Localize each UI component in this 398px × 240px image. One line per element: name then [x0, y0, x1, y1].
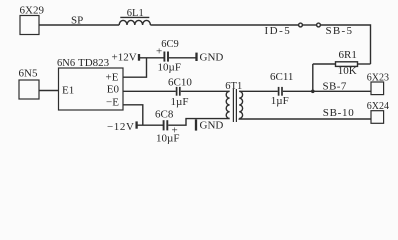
wire: pin +E to +12V rail	[123, 58, 147, 77]
wire SB-7: 6C11 to 6X23	[283, 90, 371, 92]
svg-text:6C8: 6C8	[155, 108, 174, 120]
connector 6X24	[367, 101, 389, 123]
svg-text:10µF: 10µF	[156, 132, 179, 144]
capacitor C 6C8 10uF	[155, 108, 179, 144]
wire: 6C8 up-step to 6T1 primary bottom	[168, 119, 229, 126]
op-amp U1 6N6 TD823	[57, 57, 123, 110]
inductor 6L1	[119, 8, 150, 25]
svg-text:+12V: +12V	[112, 51, 137, 63]
svg-text:1µF: 1µF	[271, 95, 289, 107]
svg-text:SB-10: SB-10	[323, 107, 355, 119]
svg-text:−12V: −12V	[107, 121, 135, 133]
wire: +12V rail to 6C9	[139, 57, 164, 59]
svg-text:6R1: 6R1	[339, 49, 357, 61]
svg-text:GND: GND	[200, 51, 224, 63]
svg-text:SB-7: SB-7	[323, 80, 347, 92]
svg-text:GND: GND	[200, 120, 224, 132]
wire: 6N5 to pin E1	[39, 90, 59, 92]
svg-text:6X23: 6X23	[367, 73, 389, 84]
svg-text:1µF: 1µF	[171, 96, 189, 108]
transformer 6T1	[225, 81, 242, 122]
svg-text:ID-5: ID-5	[265, 25, 292, 37]
svg-text:6X29: 6X29	[20, 5, 45, 17]
svg-text:6N6: 6N6	[57, 58, 75, 69]
+12V supply terminal	[112, 51, 140, 63]
capacitor C 6C10 1uF	[168, 76, 192, 108]
wire: 6R1 to SB-7 junction	[312, 64, 314, 91]
junction dot on SB-7 wire	[311, 90, 315, 94]
resistor 6R1 10K	[313, 49, 371, 77]
svg-text:10µF: 10µF	[158, 62, 181, 74]
wire SP: 6X29 to 6L1	[39, 24, 119, 26]
connector 6X23	[367, 73, 389, 95]
svg-text:6X24: 6X24	[367, 101, 389, 112]
wire: 6C9 to ground	[169, 57, 196, 59]
connector point ID-5	[265, 23, 303, 37]
svg-text:6N5: 6N5	[19, 68, 38, 80]
wire: 6T1 secondary top to 6C11	[239, 90, 278, 92]
wire: -12V rail to 6C8	[137, 124, 164, 126]
wire: pin -E to -12V rail	[123, 105, 143, 125]
svg-text:E1: E1	[62, 85, 74, 97]
wire: SB-5 to top-right corner down to 6R1	[320, 25, 370, 64]
svg-text:−E: −E	[106, 97, 119, 109]
wire SB-10: 6T1 secondary bottom to 6X24	[239, 118, 371, 121]
svg-text:6C9: 6C9	[161, 39, 179, 50]
svg-text:6T1: 6T1	[225, 81, 242, 92]
connector 6N5	[19, 68, 40, 99]
wire between connector points	[302, 24, 316, 26]
svg-text:E0: E0	[107, 84, 120, 96]
wire: 6C10 to 6T1 primary top	[181, 90, 230, 92]
svg-text:TD823: TD823	[78, 57, 110, 69]
capacitor C 6C9 10uF	[156, 39, 181, 74]
svg-text:6C10: 6C10	[168, 76, 192, 88]
svg-text:SP: SP	[71, 15, 83, 27]
ground GND (top)	[197, 51, 224, 63]
svg-text:10K: 10K	[338, 65, 357, 77]
connector 6X29	[20, 5, 45, 35]
svg-text:6L1: 6L1	[127, 8, 144, 19]
svg-text:+E: +E	[106, 72, 119, 84]
svg-text:SB-5: SB-5	[326, 25, 354, 37]
wire: pin E0 to 6C10	[123, 90, 176, 92]
capacitor C 6C11 1uF	[270, 71, 293, 107]
connector point SB-5	[317, 23, 354, 37]
svg-text:6C11: 6C11	[270, 71, 293, 83]
ground GND (bottom)	[196, 119, 223, 131]
-12V supply terminal	[107, 121, 137, 133]
wire: 6L1 to connector point ID-5	[150, 24, 298, 26]
svg-text:+: +	[156, 46, 162, 58]
